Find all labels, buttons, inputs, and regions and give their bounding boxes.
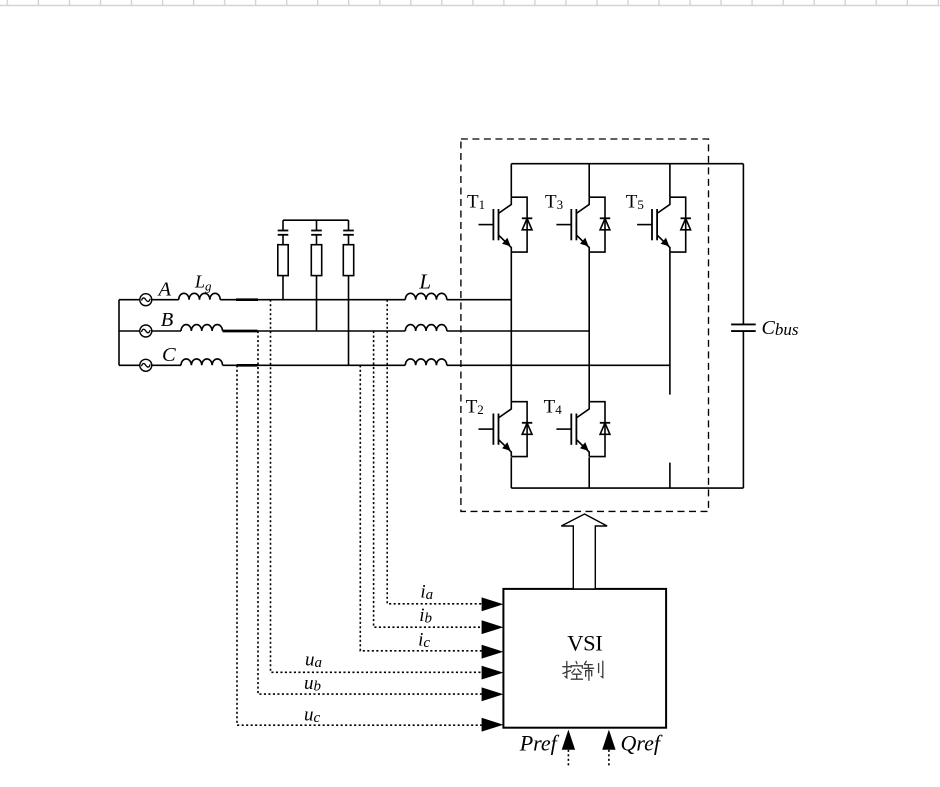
wire: phase B stub [119, 330, 140, 332]
capacitor+resistor branch phase A [278, 220, 289, 275]
wire: ub dotted tap [258, 331, 489, 694]
svg-text:ub: ub [304, 673, 322, 695]
wire: leg3 lower stub [669, 463, 671, 489]
AC source phase C [140, 359, 152, 371]
svg-text:Pref: Pref [519, 731, 560, 756]
svg-text:T5: T5 [626, 192, 644, 213]
VSI control box [503, 589, 666, 728]
inductor L phase A [405, 293, 447, 299]
arrowhead uc [482, 718, 504, 732]
wire: ib dotted tap [374, 331, 489, 627]
svg-text:T4: T4 [544, 397, 563, 418]
wire: Qref dotted stub [608, 750, 610, 767]
svg-text:B: B [161, 309, 174, 331]
arrowhead Pref [562, 730, 575, 750]
hollow arrow from controller to converter [561, 514, 607, 589]
wire: ia dotted tap [387, 300, 489, 604]
svg-text:C: C [162, 344, 176, 366]
svg-text:VSI: VSI [567, 630, 602, 655]
wire: ua dotted tap [271, 300, 490, 673]
transistor T3 [556, 197, 610, 252]
svg-text:Lg: Lg [194, 272, 212, 294]
arrowhead ub [482, 687, 504, 701]
svg-text:T1: T1 [467, 192, 485, 213]
transistor T2 [479, 402, 533, 457]
svg-text:ia: ia [420, 582, 433, 604]
AC source phase A [140, 294, 152, 306]
wire: branch B down to phase B [316, 276, 318, 331]
wire: leg2 mid [588, 252, 590, 402]
inductor L phase B [405, 325, 447, 331]
wire: ic dotted tap [360, 365, 489, 651]
wire: DC top bus [511, 163, 743, 165]
wire: phase A stub [119, 299, 140, 301]
svg-text:Qref: Qref [621, 731, 663, 756]
wire: phase B bold overlap [223, 330, 258, 333]
table-cell ruler marks along top edge [0, 0, 940, 6]
arrowhead ia [482, 597, 504, 611]
wire: phase A into bridge leg 1 [447, 299, 512, 301]
wire: phase C into bridge leg 3 [447, 364, 670, 366]
wire: uc dotted tap [237, 365, 489, 725]
wire: leg1 upper [510, 164, 512, 198]
inductor Lg phase B [181, 325, 223, 331]
wire: phase C bold overlap [237, 364, 258, 367]
svg-text:Cbus: Cbus [762, 317, 799, 339]
transistor T4 [556, 402, 610, 457]
wire: leg3 upper [669, 164, 671, 198]
inductor Lg phase C [181, 359, 223, 365]
wire: phase B middle [223, 330, 406, 332]
inductor L phase C [405, 359, 447, 365]
wire: C to Lg [151, 364, 181, 366]
arrowhead Qref [602, 730, 615, 750]
dashed converter box [461, 139, 709, 511]
wire: phase C middle [223, 364, 406, 366]
control text "kong" (CJK drawn as strokes) [563, 661, 583, 679]
wire: phase A bold overlap [236, 298, 258, 301]
svg-text:ib: ib [419, 605, 432, 627]
inductor Lg phase A [179, 293, 221, 299]
transistor T1 [479, 197, 533, 252]
wire: leg2 upper [588, 164, 590, 198]
wire: branch C down to phase C [348, 276, 350, 366]
capacitor Cbus [731, 164, 756, 488]
wire: left source bus [118, 300, 120, 366]
capacitor+resistor branch phase C [343, 220, 354, 275]
wire: phase C stub [119, 364, 140, 366]
control text "zhi" (CJK drawn as strokes) [584, 661, 603, 680]
AC source phase B [140, 325, 152, 337]
wire: branch A down to phase A [282, 276, 284, 300]
wire: phase A middle [220, 299, 405, 301]
svg-text:A: A [157, 279, 172, 301]
wire: A to Lg [151, 299, 178, 301]
capacitor+resistor branch phase B [311, 220, 322, 275]
arrowhead ib [482, 620, 504, 634]
svg-text:ic: ic [418, 630, 430, 652]
wire: phase B into bridge leg 2 [447, 330, 589, 332]
svg-text:ua: ua [305, 649, 322, 671]
transistor T5 [637, 197, 691, 252]
arrowhead ic [482, 645, 504, 659]
wire: leg3 mid with open gap [669, 252, 671, 395]
svg-text:T2: T2 [466, 397, 484, 418]
wire: B to Lg [151, 330, 181, 332]
svg-text:uc: uc [304, 705, 321, 727]
wire: leg1 lower [510, 457, 512, 488]
svg-text:T3: T3 [545, 192, 563, 213]
wire: Pref dotted stub [567, 750, 569, 767]
wire: leg2 lower [588, 457, 590, 488]
wire: filter top bus [283, 219, 349, 221]
arrowhead ua [482, 666, 504, 680]
wire: leg1 mid [510, 252, 512, 402]
wire: DC bottom bus [511, 487, 743, 489]
svg-text:L: L [418, 269, 431, 293]
